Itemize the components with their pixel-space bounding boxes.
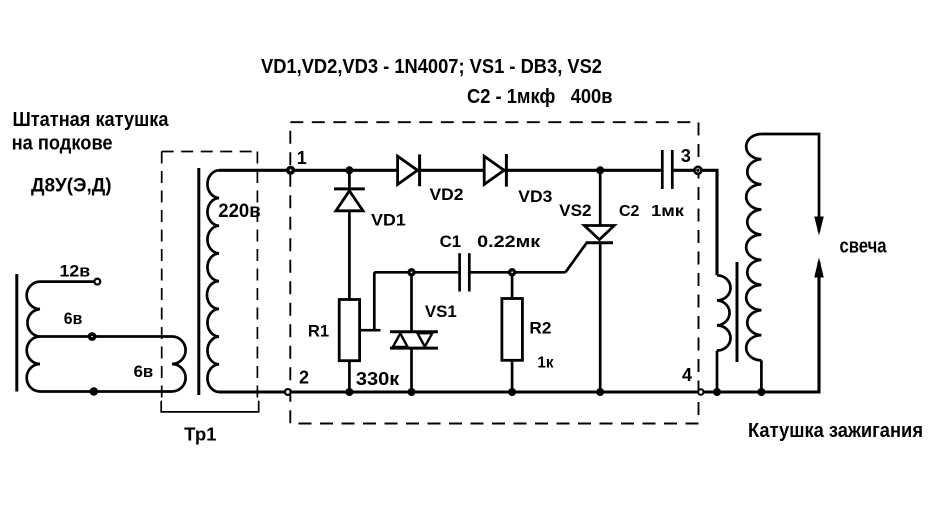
svg-text:1мк: 1мк — [651, 203, 685, 220]
svg-text:свеча: свеча — [840, 236, 888, 258]
svg-text:VD1,VD2,VD3 - 1N4007; VS1 - DB: VD1,VD2,VD3 - 1N4007; VS1 - DB3, VS2 — [261, 56, 602, 78]
svg-text:Д8У(Э,Д): Д8У(Э,Д) — [31, 176, 112, 197]
svg-text:Тр1: Тр1 — [184, 425, 216, 445]
svg-text:330к: 330к — [356, 369, 400, 389]
svg-text:3: 3 — [681, 146, 691, 166]
svg-text:Штатная катушка: Штатная катушка — [13, 109, 170, 131]
svg-text:Катушка зажигания: Катушка зажигания — [748, 420, 923, 442]
svg-text:VS1: VS1 — [425, 302, 457, 321]
svg-text:VD1: VD1 — [371, 211, 406, 230]
svg-text:2: 2 — [299, 367, 309, 387]
svg-text:C2 - 1мкф 400в: C2 - 1мкф 400в — [467, 86, 613, 108]
svg-text:6в: 6в — [134, 362, 154, 381]
svg-text:4: 4 — [682, 365, 692, 385]
svg-text:1: 1 — [297, 148, 307, 168]
svg-text:220в: 220в — [218, 201, 260, 222]
svg-text:VD2: VD2 — [430, 185, 464, 204]
svg-text:R1: R1 — [308, 322, 329, 341]
svg-text:12в: 12в — [60, 261, 91, 280]
svg-text:C1: C1 — [440, 232, 462, 251]
svg-text:1к: 1к — [537, 355, 554, 372]
svg-text:C2: C2 — [619, 203, 640, 220]
svg-text:на подкове: на подкове — [12, 133, 113, 155]
svg-text:VS2: VS2 — [559, 201, 591, 220]
svg-text:R2: R2 — [529, 319, 551, 338]
svg-text:0.22мк: 0.22мк — [477, 232, 541, 251]
svg-text:VD3: VD3 — [518, 187, 552, 206]
svg-text:6в: 6в — [64, 309, 83, 328]
